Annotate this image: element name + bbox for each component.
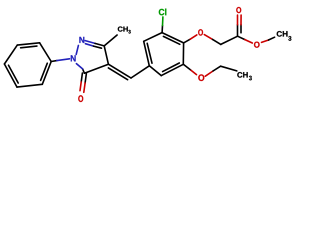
- label O1 pyrazolone: [78, 95, 83, 102]
- bond N2=C3 main line (blue half): [85, 41, 95, 44]
- bond N2=C3 main line (black half): [95, 43, 104, 46]
- ester C=O line 2 red half: [240, 15, 242, 25]
- label CH3 ethyl sub3: [249, 76, 252, 81]
- bond ester O to methyl (black half): [269, 37, 275, 40]
- bond C5-N1 (blue half): [76, 64, 82, 69]
- central ring: bond C4'-C5': [149, 66, 161, 76]
- bond C4=CH bridge inner line: [108, 68, 127, 80]
- bond C5=O line 2 red half: [84, 83, 85, 92]
- bond ethoxy O to CH2 (black half): [213, 66, 221, 71]
- phenyl ring left: bond B-C: [40, 43, 52, 62]
- label O5 ethoxy: [198, 74, 204, 81]
- label CH3 pyrazole CH: [118, 27, 128, 32]
- ester C=O line 1 red half: [237, 15, 239, 25]
- bond N1-N2: [76, 45, 78, 54]
- label CH3 pyrazole sub3: [128, 30, 130, 34]
- phenyl ring left: bond D-E bottom edge: [17, 84, 42, 87]
- bond C1' to ether O (red half): [190, 35, 197, 39]
- central ring: inner double line of C3'-C4': [147, 43, 152, 63]
- bond CH to ring C4': [131, 66, 149, 78]
- label O3 carbonyl: [236, 7, 241, 13]
- phenyl ring left: bond A-B top edge: [17, 43, 39, 45]
- bond C2' to Cl (green half): [162, 17, 164, 26]
- phenyl ring left: inner double line of A-B: [21, 46, 37, 48]
- central ring: inner double line of C1'-C2': [163, 36, 179, 44]
- bond C6' to ethoxy O (red half): [191, 70, 197, 74]
- phenyl ring left: inner double line of E-F: [9, 65, 19, 83]
- bond carbonyl C to ester O (red half): [245, 40, 252, 43]
- bond ethoxy O to CH2 (red half): [205, 71, 213, 76]
- bond N2=C3 inner line (black half): [94, 46, 102, 48]
- label N2: [79, 37, 84, 43]
- bond C5-N1 (black half): [83, 69, 85, 73]
- phenyl ring left: inner double line of C-D: [41, 63, 48, 80]
- central ring: bond C6'-C1': [182, 43, 184, 64]
- ester C=O line 2 black half: [240, 25, 242, 33]
- label CH3 ethyl CH: [237, 72, 247, 78]
- label CH3 ester CH: [277, 31, 288, 36]
- bond C5=O line 1 red half: [80, 82, 81, 91]
- bond C3-C4: [104, 46, 108, 64]
- bond phenyl C to N1 (blue half): [57, 59, 70, 61]
- central ring: inner double line of C5'-C6': [163, 63, 180, 72]
- bond C6' to ethoxy O (black half): [183, 64, 191, 70]
- phenyl ring left: bond C-D: [42, 62, 51, 85]
- label O4 ester: [254, 42, 260, 48]
- bond CH2 to ethyl methyl label: [221, 66, 237, 71]
- central ring: bond C1'-C2': [162, 33, 184, 43]
- central ring: bond C5'-C6': [161, 64, 183, 75]
- phenyl ring left: bond F-A: [4, 45, 17, 64]
- bond ester O to methyl (red half): [262, 40, 269, 42]
- central ring: bond C3'-C4': [144, 41, 150, 66]
- label Cl: [159, 9, 167, 16]
- bond phenyl C to N1 (black half): [51, 60, 57, 63]
- label N1: [71, 55, 76, 61]
- bond C4=CH bridge main line: [108, 64, 131, 78]
- central ring: bond C2'-C3': [144, 33, 162, 42]
- bond N2=C3 inner line (blue half): [85, 44, 93, 46]
- bond C5=O line 1 black half: [81, 73, 82, 82]
- bond CH2 to carbonyl C: [221, 36, 238, 44]
- phenyl ring left: bond E-F: [4, 64, 17, 87]
- bond O to CH2 (red half): [204, 35, 212, 40]
- label CH3 ester sub3: [288, 36, 291, 41]
- bond carbonyl C to ester O (black half): [238, 36, 245, 39]
- label O2 aryl ether: [198, 29, 203, 35]
- bond C2' to Cl (black half): [161, 26, 163, 33]
- bond C5=O line 2 black half: [85, 73, 86, 83]
- bond C4-C5: [84, 64, 108, 73]
- bond O to CH2 (black half): [213, 39, 221, 44]
- bond C1' to ether O (black half): [184, 39, 191, 43]
- bond C3 to methyl label: [104, 35, 117, 46]
- ester C=O line 1 black half: [237, 25, 239, 37]
